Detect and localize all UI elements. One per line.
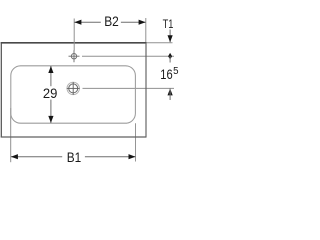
countertop bottom edge (1, 136, 147, 138)
drain centerline to right (83, 87, 175, 89)
extension line top edge to right (T1) (146, 42, 172, 44)
extension line right (B2 above, B1 below, at outer-right edge) (145, 18, 147, 43)
dimension 16(5) (160, 66, 178, 100)
svg-text:16: 16 (160, 66, 173, 82)
dimension B1 (11, 150, 136, 166)
svg-text:T1: T1 (163, 17, 174, 31)
countertop left edge (0, 42, 2, 137)
countertop rear edge (top) (1, 42, 147, 44)
drain symbol (67, 82, 80, 95)
dimension B2 (74, 14, 145, 30)
basin inner rim (rounded) (11, 66, 136, 123)
tap hole symbol (69, 50, 80, 62)
svg-text:29: 29 (43, 86, 58, 102)
svg-text:5: 5 (173, 66, 178, 77)
svg-text:B1: B1 (67, 150, 82, 166)
dimension 29 (vertical inside basin) (43, 66, 58, 123)
B2 left extension down to tap (73, 19, 75, 51)
svg-text:B2: B2 (104, 14, 119, 30)
tap centerline to right (82, 55, 174, 57)
extension line inner-right below basin (135, 123, 137, 161)
diamond marker tap line (168, 53, 172, 60)
extension line left (B1, along inner-left edge) (10, 108, 12, 162)
dimension T1 (163, 17, 174, 42)
countertop right edge (145, 43, 147, 138)
